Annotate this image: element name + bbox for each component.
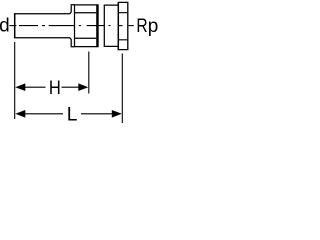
dimension H right arrowhead xyxy=(78,83,88,91)
svg-text:p: p xyxy=(148,16,159,37)
extension line right (overall length L) xyxy=(121,54,123,124)
svg-text:H: H xyxy=(49,77,61,98)
svg-text:d: d xyxy=(0,16,10,37)
dimension H line xyxy=(25,86,79,88)
centerline (dash-dot axis) xyxy=(9,25,133,27)
extension line left (pipe end) xyxy=(14,42,16,119)
pipe press end outline xyxy=(14,5,71,46)
dimension L right arrowhead xyxy=(112,110,122,118)
bead at socket mouth xyxy=(71,5,75,48)
hex end face (thick line) xyxy=(96,4,99,47)
Rp ring outer xyxy=(118,2,129,50)
extension line middle (insertion depth H) xyxy=(88,52,90,94)
dimension H left arrowhead xyxy=(15,83,25,91)
middle cylinder xyxy=(104,5,119,47)
dimension L line xyxy=(25,113,113,115)
Rp ring inner chamfer lines xyxy=(119,13,127,40)
dimension L left arrowhead xyxy=(15,110,25,118)
svg-text:L: L xyxy=(67,104,78,125)
hex body xyxy=(75,5,98,47)
svg-text:R: R xyxy=(136,14,147,36)
